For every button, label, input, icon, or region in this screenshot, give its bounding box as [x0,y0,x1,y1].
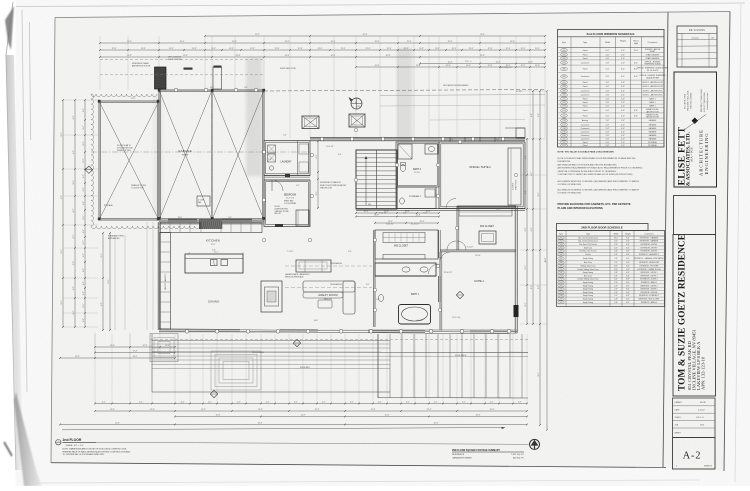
upper deck rail lines [380,95,545,96]
interior tag circles [310,153,313,156]
left dimension columns [62,100,64,327]
laundry machines [268,145,276,153]
bath 2 shower [398,144,412,159]
garage X-brace bay 2 [212,90,264,220]
paper bottom edge [30,480,700,483]
wing left wall tags [262,150,265,153]
garage X-brace left bay [99,101,159,220]
closet island [479,231,496,244]
bath 1 toilet [378,295,383,302]
paper right edge [735,4,741,482]
revisions table [677,26,717,67]
paper fold lines [22,10,27,392]
deck above columns X-square 1 [302,116,319,129]
powder fixtures [400,198,405,204]
deck right rail verticals [377,334,379,398]
suite 1 walls [439,252,441,333]
sheet number box [673,438,716,470]
coffee table [318,300,332,308]
garage X-brace bay 1 [159,90,212,220]
grid bubble [351,98,362,109]
laundry door dark [285,174,290,178]
left bottom dim columns [102,233,104,330]
bottom dimension extension lines [94,334,96,404]
scan smudge streaks [246,58,262,176]
laundry room [264,141,310,176]
left dimension extension lines [63,99,98,101]
garage main [159,90,264,220]
inner stair dim column [317,141,319,208]
drawing title bubble [56,440,61,445]
bottom dimension row dense [95,403,527,405]
fireplace [261,281,282,312]
office window ticks [449,138,451,142]
stairs down arrow [365,158,367,205]
left bottom dimension rows [95,346,175,348]
top dimension row 3 [100,49,545,51]
office closet shelves [508,148,521,205]
garage left bay [99,101,159,220]
sheet border right [724,12,730,472]
window schedule table [558,30,665,148]
north arrow line [96,442,529,444]
keynote diamonds [85,166,92,173]
project box [673,235,716,397]
bath 1 walls [374,230,376,327]
top dimension row 1 [205,35,545,37]
office door arc [446,199,456,209]
garage centerline dash-dot [91,151,310,153]
door schedule table [557,224,649,231]
tv unit [296,260,331,272]
stamp box [674,196,716,235]
firm diamond logo [692,118,699,125]
bottom dimension row 4 [60,424,527,426]
top dimension extension lines [99,36,101,90]
bottom dimension row 3 [175,416,527,418]
north arrow [530,439,540,449]
top dimension row 4 garage [100,56,545,58]
deck outline [151,334,153,392]
kitchen top cabinets [160,223,262,233]
top dimension row 6 right [356,66,545,68]
firm divider diagonal [684,115,706,131]
left bottom extension verticals [94,332,96,359]
bath1 door arc [429,264,439,274]
right dimension columns [526,139,528,324]
top dimension row 5 right [420,63,545,65]
window tags top wall [320,137,324,141]
garage door panels [168,218,197,220]
couch [303,281,355,292]
sheet border bottom [51,463,666,468]
top dimension row 2 [100,42,545,44]
deck dashed overhang [150,339,530,341]
closet right shelves [459,208,512,216]
chimney vent rect [213,67,222,89]
paper left edge [6,2,16,470]
kitchen walls [157,222,159,330]
driveway dashed lines [100,59,264,61]
stairs [356,150,397,209]
deck above columns X-square 2 [349,114,365,127]
right long dimension [546,91,548,430]
ms closet cabinets [383,233,425,243]
sheet border top [55,12,730,18]
wall below powder [356,208,525,210]
closet door arcs [447,241,456,250]
sheet border left [51,18,55,463]
bath 2 [396,142,439,187]
entry porch stoop [150,334,178,362]
suite 1 door dark [514,305,519,317]
suite1 door arc [440,252,450,262]
ms closet right [457,205,516,207]
deck steps [211,351,261,390]
corridor dimension row [356,212,439,214]
garage conc pad [197,196,210,206]
bath 2 vanity [425,144,438,154]
deck boards [152,339,390,342]
kitchen left cabinets [160,233,171,330]
chimney hatched [155,67,167,89]
sliding door openings bottom wall [318,329,368,333]
roof above dashed [264,90,545,92]
tub [399,305,431,325]
bedroom door arc [272,180,283,191]
powder 2 [396,187,436,209]
right dimension extension lines [520,90,547,92]
bedroom closet [296,210,309,226]
kitchen bottom wall [159,329,310,330]
bottom leader line with arrow [62,428,505,430]
info table [673,398,716,438]
left porch lines [146,222,148,330]
laundry divider [297,141,299,176]
office suite 2 [439,142,525,209]
garage door block [199,219,222,229]
vanity row [375,263,436,276]
hall divider [264,175,310,177]
window tags bottom wall [185,329,189,333]
bedroom door dark [275,224,283,227]
revision cloud around garage [91,94,94,226]
kitchen island [185,254,243,273]
window tags garage [174,88,178,92]
ms closet left [375,230,438,259]
title block divider [663,13,668,468]
bottom dimension row 2 [95,410,527,412]
upper wing top wall [310,137,525,141]
interior dim line corridor [375,222,438,224]
bedroom [264,180,310,227]
garage corner posts [158,89,161,92]
garage bay divider [211,90,213,220]
paper top-left dark corner [5,6,14,50]
paper bottom-left shadow wedge [14,392,42,486]
firm box [674,72,717,187]
laundry sink [269,166,273,170]
bath 2 toilet [400,165,405,172]
roof dark dashes [184,68,193,70]
paper top edge [16,3,745,7]
